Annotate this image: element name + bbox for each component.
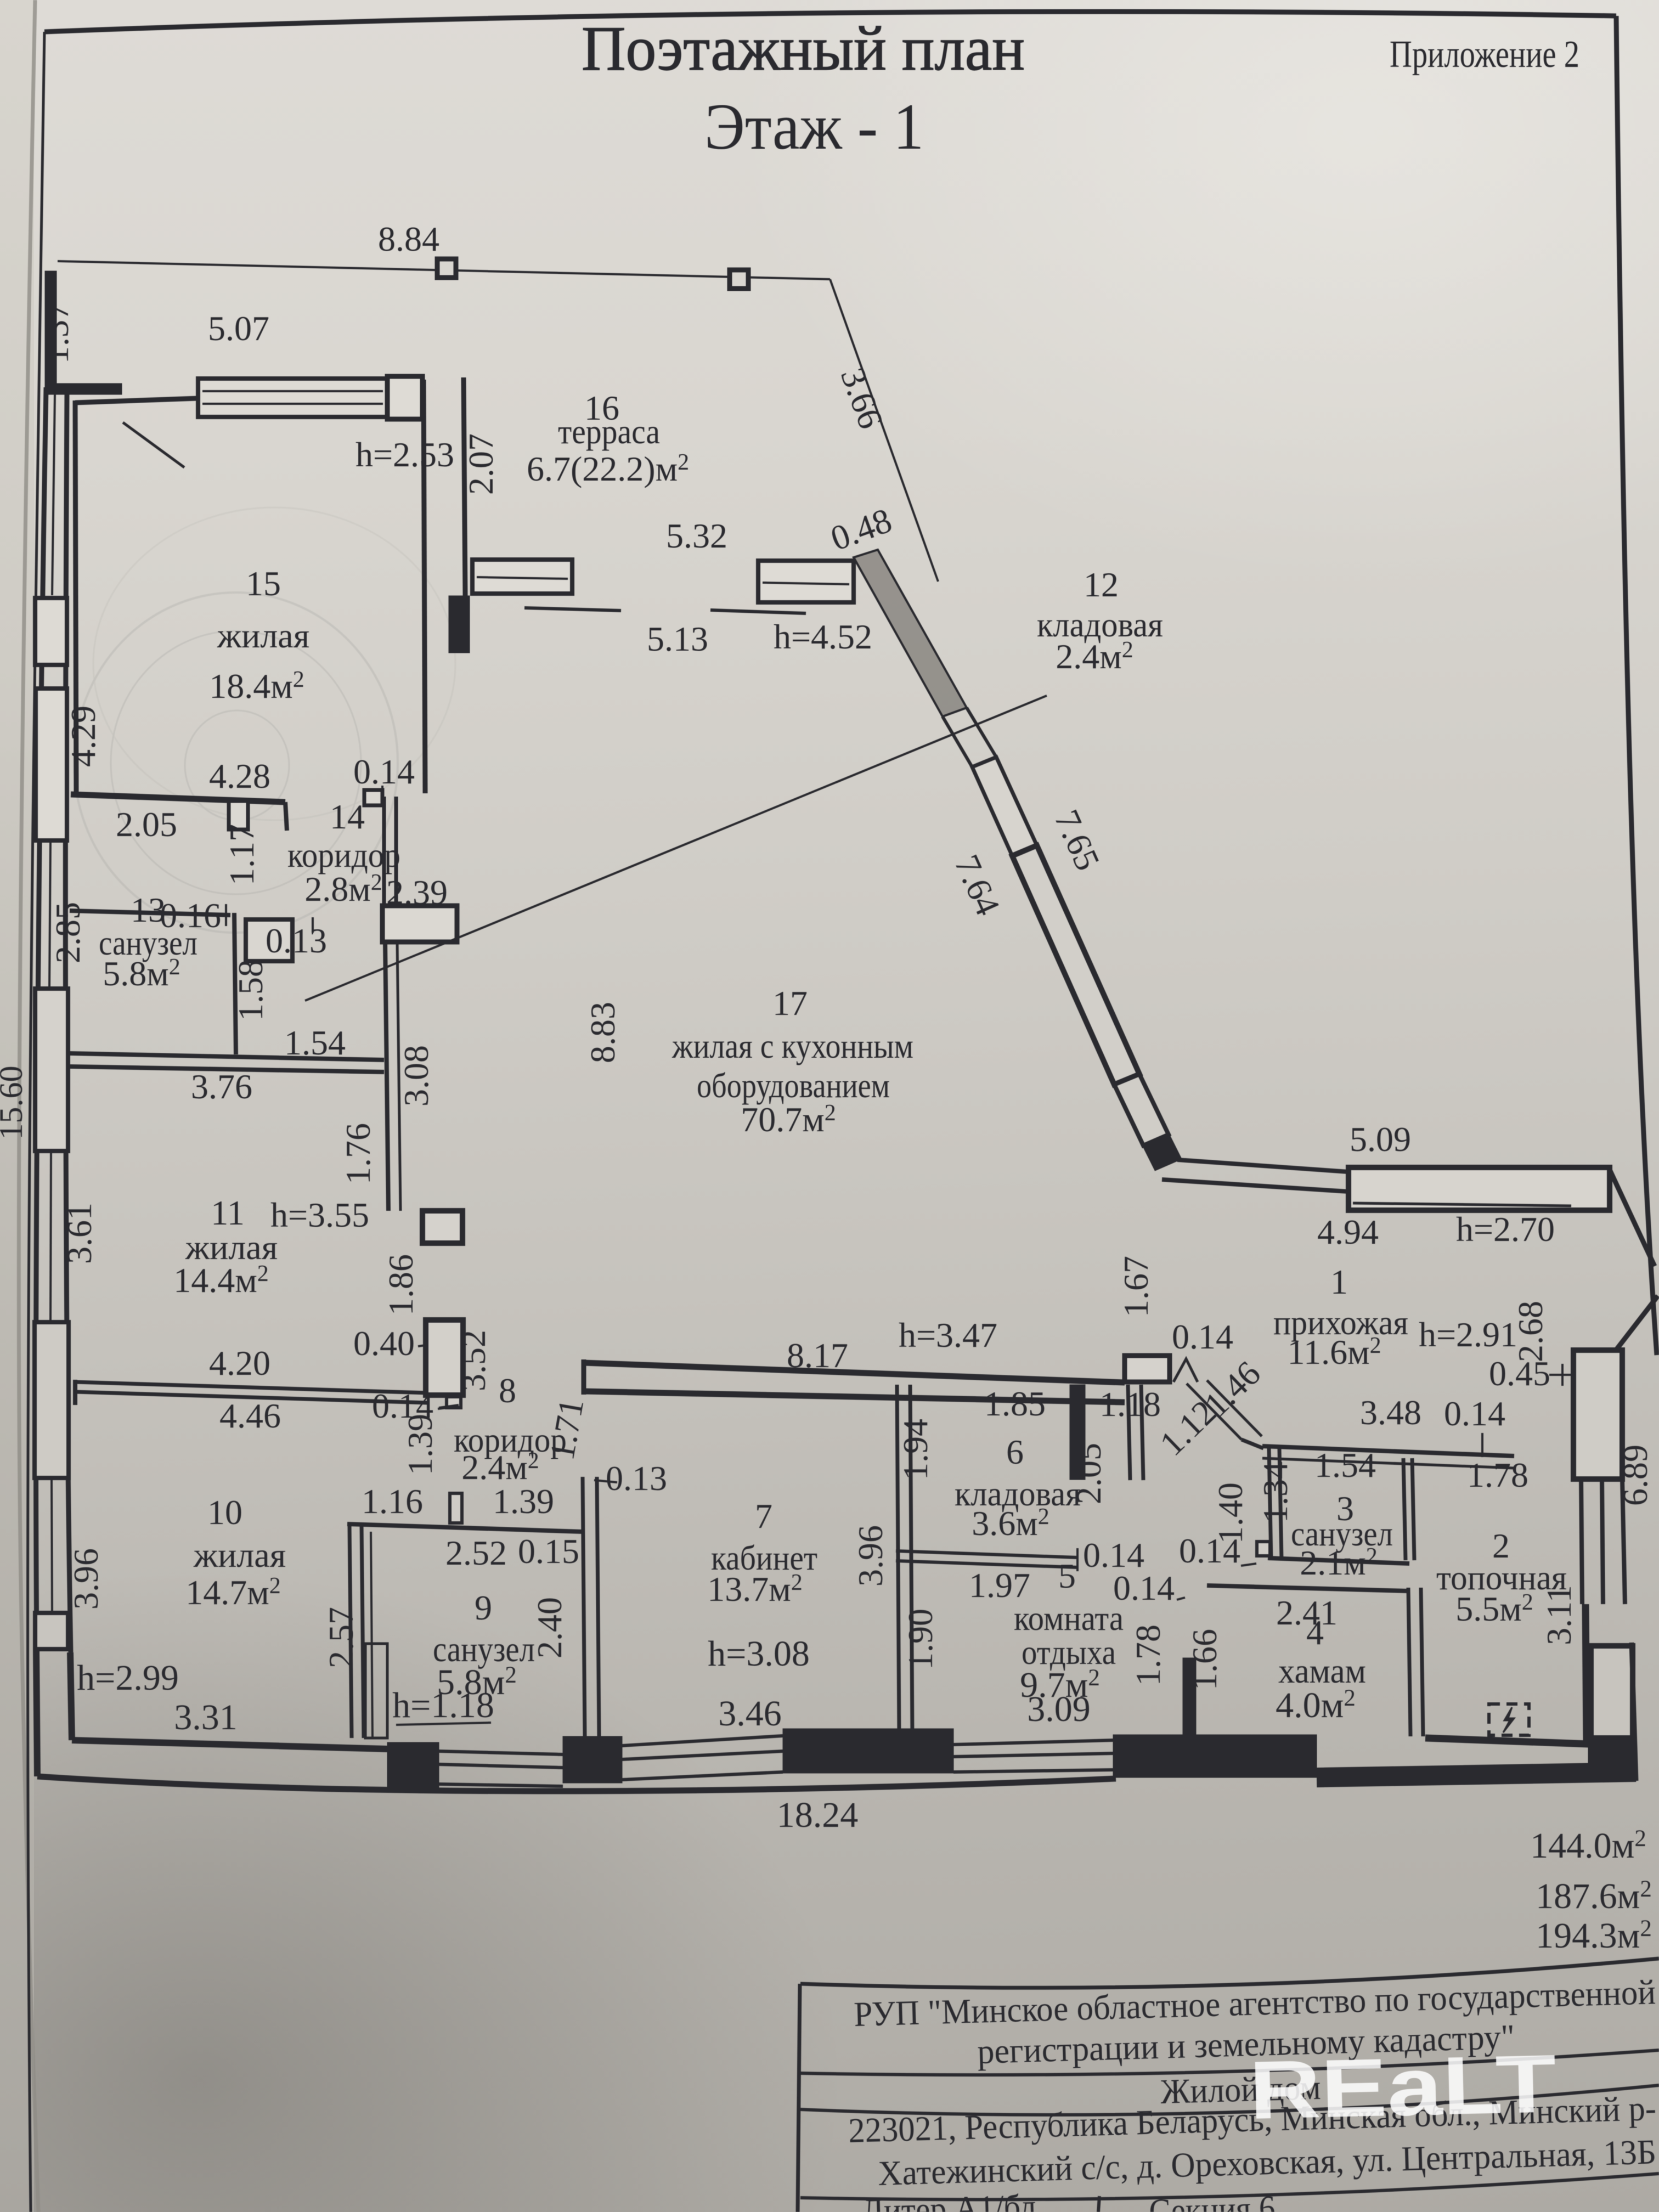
svg-text:h=2.91: h=2.91 <box>1419 1315 1517 1354</box>
tick 0.40 <box>418 1345 426 1346</box>
svg-text:Поэтажный план: Поэтажный план <box>582 14 1025 84</box>
wall san13 bottom / room11 top lower line <box>70 1066 384 1072</box>
window 5.07 inner lines <box>202 391 383 404</box>
wall corridor end to entrance lower <box>1162 1180 1348 1192</box>
svg-text:жилая с кухонным: жилая с кухонным <box>672 1026 913 1065</box>
svg-text:18.4м2: 18.4м2 <box>209 667 304 706</box>
sill line under window B <box>524 608 621 611</box>
prihozhaya window inner line <box>1353 1203 1571 1206</box>
svg-text:0.48: 0.48 <box>826 500 897 558</box>
prihozhaya big window band <box>1348 1167 1610 1210</box>
boundary diagonal 3.66 <box>830 279 938 582</box>
svg-text:1.18: 1.18 <box>1099 1385 1161 1424</box>
svg-text:1.37: 1.37 <box>37 302 76 364</box>
san13 door jamb <box>246 919 292 961</box>
table row line 1 <box>800 2050 1659 2075</box>
svg-text:1.54: 1.54 <box>284 1023 346 1062</box>
svg-text:1.16: 1.16 <box>362 1482 423 1521</box>
svg-text:жилая: жилая <box>217 616 309 655</box>
svg-text:3.46: 3.46 <box>718 1694 782 1734</box>
svg-text:h=1.18: h=1.18 <box>392 1685 494 1725</box>
jamb block right of 5.07 <box>387 376 422 419</box>
svg-text:коридор: коридор <box>287 836 400 874</box>
svg-text:жилая: жилая <box>193 1536 286 1575</box>
kitchen south wall lower <box>584 1391 1125 1402</box>
hamam left wall bar <box>1183 1658 1196 1736</box>
boundary marker post 1 <box>437 259 456 278</box>
leader line room12 <box>305 696 1047 1001</box>
svg-text:2.05: 2.05 <box>116 805 177 844</box>
svg-text:Литер А1/бл: Литер А1/бл <box>861 2187 1036 2212</box>
left wall mid line seg2 <box>49 840 50 989</box>
wall san13 bottom / room11 top upper line <box>70 1053 384 1060</box>
tick 0.14 san3 wall <box>1481 1433 1483 1457</box>
left wall mid line seg3 <box>50 1151 51 1322</box>
svg-text:5.8м2: 5.8м2 <box>103 954 180 993</box>
svg-text:13.7м2: 13.7м2 <box>707 1570 803 1609</box>
room9 inner lining <box>371 1532 373 1738</box>
san13 top wall <box>70 911 230 915</box>
bottom window strip 1 <box>439 1751 563 1786</box>
svg-text:1.78: 1.78 <box>1467 1455 1528 1494</box>
svg-text:6.7(22.2)м2: 6.7(22.2)м2 <box>527 449 689 488</box>
corridor window 2 long <box>1012 845 1139 1085</box>
svg-text:11: 11 <box>211 1193 245 1232</box>
svg-text:комната: комната <box>1014 1599 1124 1638</box>
svg-text:9: 9 <box>475 1588 492 1627</box>
svg-text:1.78: 1.78 <box>1128 1624 1167 1686</box>
svg-text:Секция 6: Секция 6 <box>1148 2188 1276 2212</box>
room7 left wall <box>583 1477 599 1736</box>
svg-text:2.85: 2.85 <box>48 902 87 963</box>
svg-text:5: 5 <box>1058 1556 1076 1595</box>
svg-text:2.07: 2.07 <box>461 433 500 495</box>
svg-text:5.32: 5.32 <box>666 516 727 555</box>
svg-text:2.4м2: 2.4м2 <box>461 1448 539 1487</box>
door swing diagonal 1.12 <box>1187 1384 1242 1440</box>
terrace window B <box>472 560 572 594</box>
kitchen west door frame block <box>382 906 457 942</box>
svg-text:8.83: 8.83 <box>583 1002 622 1063</box>
svg-text:7.65: 7.65 <box>1047 804 1107 876</box>
svg-text:1.67: 1.67 <box>1116 1256 1155 1317</box>
right outer face to corner <box>1632 1643 1636 1781</box>
corridor upper left edge <box>943 716 972 767</box>
terrace left wall block <box>45 271 57 393</box>
room15 bottom wall <box>71 794 285 802</box>
svg-text:8.84: 8.84 <box>378 219 439 258</box>
svg-text:144.0м2: 144.0м2 <box>1530 1826 1646 1866</box>
bottom wall pier 1 <box>387 1742 439 1787</box>
boundary marker post 2 <box>730 270 748 289</box>
left exterior wall inner face <box>65 394 71 1652</box>
svg-text:3.48: 3.48 <box>1360 1393 1421 1432</box>
san3 left wall <box>1269 1448 1282 1560</box>
svg-text:187.6м2: 187.6м2 <box>1536 1876 1652 1916</box>
bottom window strip 3 <box>953 1740 1113 1772</box>
svg-text:0.13: 0.13 <box>606 1459 667 1498</box>
window W0 left wall <box>35 598 67 665</box>
room15 bottom wall jog <box>285 802 287 831</box>
svg-text:15: 15 <box>246 564 281 603</box>
electric lightning bolt <box>1503 1707 1514 1733</box>
kitchen west wall inner <box>397 942 400 1211</box>
svg-text:12: 12 <box>1084 565 1119 604</box>
svg-text:1.76: 1.76 <box>338 1123 377 1184</box>
room15 top wall left part <box>75 398 198 403</box>
bottom wall outer line <box>37 1776 1116 1791</box>
svg-text:5.07: 5.07 <box>208 309 269 348</box>
frame border right <box>1616 16 1657 1355</box>
svg-text:h=4.52: h=4.52 <box>774 617 872 656</box>
column box room11 <box>422 1211 462 1243</box>
svg-text:0.15: 0.15 <box>518 1532 579 1571</box>
hamam right wall <box>1408 1588 1423 1736</box>
svg-text:0.14: 0.14 <box>1172 1317 1233 1356</box>
tick 0.16 <box>225 904 227 926</box>
svg-text:2.57: 2.57 <box>321 1607 360 1668</box>
room15 right wall inner face <box>424 380 425 793</box>
svg-text:1.40: 1.40 <box>1211 1482 1250 1544</box>
hatched wall 0.48 <box>854 550 967 716</box>
tick 0.14 kladovaya <box>1076 1548 1079 1571</box>
bottom wall pier 3 <box>783 1729 953 1773</box>
svg-text:1.39: 1.39 <box>493 1482 554 1521</box>
svg-text:2.1м2: 2.1м2 <box>1300 1543 1378 1582</box>
svg-text:0.13: 0.13 <box>266 921 327 960</box>
svg-text:h=3.55: h=3.55 <box>270 1195 369 1234</box>
frame border top <box>44 12 1616 32</box>
right window vertical <box>1573 1350 1622 1479</box>
wall corridor end to entrance upper <box>1177 1160 1348 1172</box>
wall 4.20 upper line <box>75 1382 427 1393</box>
kitchen south wall upper <box>584 1363 1125 1383</box>
kladovaya6 bottom wall <box>896 1551 1077 1567</box>
right wall band below window <box>1581 1479 1625 1604</box>
terrace window C <box>758 561 854 602</box>
corridor window 1 <box>972 757 1037 856</box>
bottom wall left inner vertical <box>70 1652 72 1740</box>
bottom wall right outer band <box>1317 1772 1636 1778</box>
terrace left wall stub <box>45 383 122 394</box>
svg-text:2.8м2: 2.8м2 <box>304 870 382 909</box>
svg-text:h=3.47: h=3.47 <box>899 1316 997 1355</box>
svg-text:4.46: 4.46 <box>219 1396 281 1435</box>
svg-text:3.6м2: 3.6м2 <box>972 1504 1049 1543</box>
svg-text:Приложение 2: Приложение 2 <box>1390 33 1579 76</box>
terrace wall pilaster block <box>449 596 470 653</box>
window W4 left wall <box>35 1613 68 1649</box>
svg-text:8: 8 <box>499 1371 516 1410</box>
window W3 left wall <box>35 1322 69 1478</box>
svg-text:3.09: 3.09 <box>1027 1689 1091 1729</box>
svg-text:оборудованием: оборудованием <box>697 1066 890 1105</box>
table top line <box>800 1959 1659 1988</box>
svg-text:1.85: 1.85 <box>984 1384 1046 1423</box>
svg-text:4.20: 4.20 <box>209 1344 270 1383</box>
svg-text:1.17: 1.17 <box>222 824 261 885</box>
door jamb corridor14 right <box>364 790 382 805</box>
rooms 6/5 left wall <box>897 1385 912 1736</box>
stamp faint circles <box>74 507 455 933</box>
svg-text:2.40: 2.40 <box>530 1597 569 1658</box>
svg-text:6: 6 <box>1006 1432 1024 1471</box>
tick door room10 <box>438 1407 458 1409</box>
sill line near h=4.52 <box>710 610 806 613</box>
svg-text:194.3м2: 194.3м2 <box>1536 1916 1652 1956</box>
left exterior wall outer face <box>36 387 46 1651</box>
svg-text:0.14: 0.14 <box>1444 1394 1505 1433</box>
san3 bottom wall <box>1268 1558 1409 1564</box>
svg-text:5.13: 5.13 <box>647 619 708 658</box>
svg-text:2.4м2: 2.4м2 <box>1056 637 1133 676</box>
svg-text:2.05: 2.05 <box>1069 1443 1108 1504</box>
topochnaya bottom wall <box>1425 1738 1589 1744</box>
corridor end window <box>1114 1074 1169 1145</box>
svg-text:терраса: терраса <box>558 412 660 451</box>
bottom wall pier 4 <box>1113 1735 1317 1778</box>
svg-text:3.31: 3.31 <box>174 1697 238 1737</box>
svg-text:3.76: 3.76 <box>191 1067 252 1106</box>
svg-text:14.4м2: 14.4м2 <box>173 1261 269 1300</box>
svg-text:3.08: 3.08 <box>397 1045 436 1107</box>
svg-text:h=2.53: h=2.53 <box>356 435 454 474</box>
kitchen south wall left cap <box>582 1359 586 1395</box>
electric symbol dashed box <box>1489 1704 1529 1735</box>
svg-text:3.96: 3.96 <box>66 1548 105 1610</box>
terrace window B midline <box>477 577 568 579</box>
frame border left <box>27 32 44 2212</box>
svg-text:1.71: 1.71 <box>542 1396 591 1463</box>
tick 0.45 <box>1549 1364 1576 1386</box>
bottom wall left outer vertical <box>36 1650 37 1776</box>
svg-text:1.58: 1.58 <box>231 960 270 1021</box>
room15 right wall outer face <box>464 377 465 596</box>
door jamb room15/14 <box>229 801 248 830</box>
tick 0.14 room14 <box>381 786 383 797</box>
left wall mid line seg1 <box>52 394 55 595</box>
svg-text:7: 7 <box>755 1497 772 1536</box>
dim line 8.84 top boundary <box>58 261 830 279</box>
svg-text:Этаж - 1: Этаж - 1 <box>704 90 924 163</box>
room9 top wall <box>347 1524 583 1532</box>
svg-text:11.6м2: 11.6м2 <box>1287 1333 1381 1372</box>
bottom window strip 2 <box>622 1736 783 1780</box>
bottom wall inner line left section <box>72 1740 387 1749</box>
svg-text:h=2.99: h=2.99 <box>77 1658 179 1698</box>
san3 right wall <box>1403 1458 1414 1560</box>
svg-text:0.14: 0.14 <box>353 752 415 791</box>
small jamb below stub <box>447 1397 461 1408</box>
wall stub 0.40 <box>426 1320 463 1395</box>
svg-text:4.0м2: 4.0м2 <box>1276 1685 1356 1725</box>
svg-text:5.5м2: 5.5м2 <box>1455 1589 1533 1628</box>
chamfer wall to san3 <box>1242 1440 1263 1448</box>
svg-text:70.7м2: 70.7м2 <box>741 1100 836 1139</box>
svg-text:0.45: 0.45 <box>1489 1354 1550 1393</box>
window W2 left wall <box>35 989 68 1151</box>
svg-text:4.29: 4.29 <box>64 706 103 767</box>
svg-text:6.89: 6.89 <box>1616 1444 1655 1506</box>
corridor14 left wall <box>234 913 236 1054</box>
tick 0.14 wall <box>439 1405 459 1408</box>
svg-text:15.60: 15.60 <box>0 1066 29 1140</box>
san3 top wall lower <box>1262 1458 1514 1468</box>
svg-text:2.52: 2.52 <box>445 1533 507 1572</box>
entrance jamb block <box>1125 1356 1170 1382</box>
table cell divider <box>1098 2196 1099 2212</box>
room9 door stub <box>450 1493 462 1523</box>
wall prihozhaya west 2.05 <box>1128 1385 1143 1480</box>
svg-text:14.7м2: 14.7м2 <box>185 1573 281 1612</box>
corridor14 right wall upper <box>384 797 396 906</box>
room15 inner left face <box>75 400 76 794</box>
bottom wall pier 2 <box>563 1736 622 1783</box>
right chamfer lower <box>1617 1296 1658 1349</box>
svg-text:хамам: хамам <box>1278 1651 1366 1690</box>
svg-text:3.61: 3.61 <box>60 1203 99 1264</box>
door leaf diagonal room15 <box>123 422 184 467</box>
tick 0.13 room7 <box>594 1480 617 1482</box>
svg-text:17: 17 <box>772 984 808 1023</box>
room9 left wall <box>349 1524 364 1738</box>
svg-text:3.66: 3.66 <box>833 363 891 434</box>
tick 0.14 room5 <box>1177 1598 1185 1600</box>
bottom right corner block <box>1588 1739 1636 1781</box>
svg-text:1.90: 1.90 <box>901 1609 940 1670</box>
lower right window <box>1591 1646 1633 1738</box>
svg-text:4: 4 <box>1306 1613 1324 1652</box>
svg-text:1.54: 1.54 <box>1314 1446 1376 1485</box>
entrance door V mark <box>1173 1359 1198 1382</box>
svg-text:10: 10 <box>207 1493 242 1532</box>
door swing diagonal 1.46 <box>1207 1380 1262 1436</box>
terrace window C midline <box>763 583 849 584</box>
tick 0.14 san3 <box>1241 1564 1256 1566</box>
svg-text:18.24: 18.24 <box>777 1795 859 1835</box>
svg-text:1.34: 1.34 <box>1256 1462 1295 1523</box>
svg-text:1.66: 1.66 <box>1185 1629 1224 1690</box>
svg-text:14: 14 <box>330 797 365 836</box>
svg-text:h=3.08: h=3.08 <box>708 1634 810 1674</box>
hamam top wall <box>1207 1585 1407 1591</box>
corridor upper right edge <box>967 708 996 757</box>
svg-text:2.39: 2.39 <box>386 873 448 912</box>
svg-text:3.52: 3.52 <box>454 1330 493 1391</box>
san3 door notch <box>1257 1542 1270 1556</box>
svg-text:1: 1 <box>1330 1262 1348 1301</box>
svg-text:REaLT: REaLT <box>1248 2037 1558 2136</box>
wall 4.20 left cap <box>73 1380 77 1405</box>
svg-text:1.86: 1.86 <box>381 1254 420 1316</box>
svg-text:1.94: 1.94 <box>896 1419 935 1480</box>
svg-text:h=2.70: h=2.70 <box>1456 1210 1555 1249</box>
page fold shadow left edge <box>19 0 38 2212</box>
window W1 left wall <box>36 689 67 840</box>
kitchen west wall <box>385 942 388 1211</box>
svg-text:3.96: 3.96 <box>851 1525 890 1587</box>
svg-text:4.94: 4.94 <box>1317 1212 1379 1251</box>
san3 top wall upper <box>1262 1446 1514 1456</box>
table row line 2 <box>800 2085 1659 2115</box>
left wall mid line seg4 <box>52 1478 52 1613</box>
table left border <box>798 1984 800 2212</box>
svg-text:1.39: 1.39 <box>400 1414 439 1475</box>
svg-text:3.11: 3.11 <box>1539 1585 1578 1645</box>
right chamfer outer <box>1610 1170 1655 1266</box>
svg-text:0.40: 0.40 <box>353 1324 415 1363</box>
svg-text:7.64: 7.64 <box>947 849 1007 921</box>
corridor end cap wall <box>1143 1135 1181 1170</box>
window 5.07 terrace <box>198 379 387 417</box>
svg-text:5.09: 5.09 <box>1350 1120 1411 1159</box>
svg-text:8.17: 8.17 <box>787 1336 848 1375</box>
tick 0.13 <box>312 917 314 933</box>
room9 shower box <box>365 1644 387 1738</box>
table row line 3 <box>800 2174 1659 2199</box>
svg-text:4.28: 4.28 <box>209 757 270 795</box>
wall 4.20 lower line <box>75 1392 427 1403</box>
kladovaya6 right bar <box>1070 1385 1085 1480</box>
